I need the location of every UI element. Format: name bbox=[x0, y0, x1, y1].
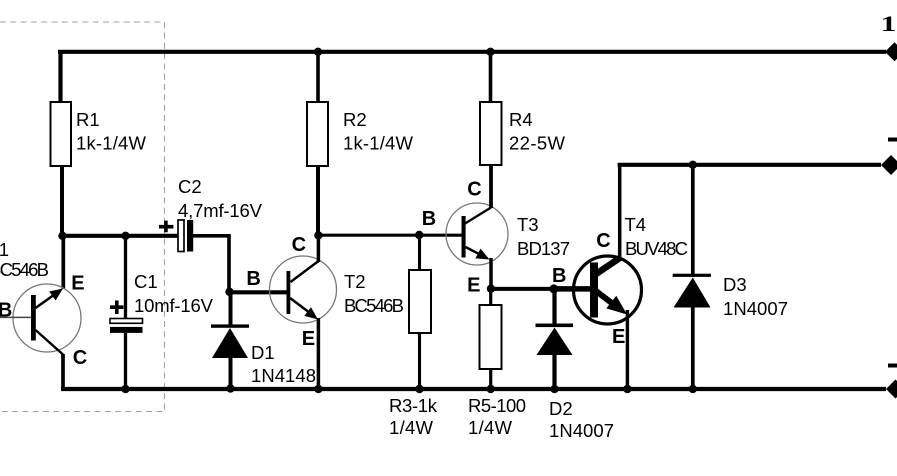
node A junction dot bbox=[58, 232, 66, 240]
svg-text:T4: T4 bbox=[625, 214, 647, 235]
svg-text:C: C bbox=[292, 234, 306, 256]
transistor T4 bbox=[552, 214, 688, 348]
junction dot T2 emitter on rail bbox=[314, 385, 322, 393]
svg-text:B: B bbox=[422, 208, 436, 230]
diode D1 bbox=[211, 291, 316, 393]
wire: R1 bottom to node A bbox=[60, 166, 64, 236]
svg-text:T2: T2 bbox=[344, 271, 366, 292]
resistor R2 bbox=[307, 48, 414, 236]
svg-text:C: C bbox=[467, 179, 481, 201]
svg-text:BC546B: BC546B bbox=[0, 259, 49, 280]
svg-text:1: 1 bbox=[881, 12, 897, 36]
wire: T2 emitter to bottom rail bbox=[317, 318, 321, 389]
selection box (dashed marquee) bbox=[0, 22, 165, 412]
wire: node E3 to node B4 bbox=[491, 287, 553, 291]
terminal minus (middle right) bbox=[881, 138, 897, 176]
wire: node B4 to T4 base bbox=[553, 286, 591, 292]
node B4 junction dot (D2 / T4 base) bbox=[549, 284, 558, 293]
wire: middle rail bbox=[618, 163, 881, 167]
diode D3 bbox=[673, 161, 788, 394]
svg-text:C1: C1 bbox=[134, 271, 158, 292]
svg-text:B: B bbox=[0, 300, 12, 322]
wire: T3 emitter down to node E3 bbox=[489, 258, 493, 289]
svg-text:B: B bbox=[552, 265, 566, 287]
svg-text:E: E bbox=[302, 328, 315, 350]
svg-text:C2: C2 bbox=[178, 176, 202, 197]
wire: T1 collector to bottom rail bbox=[61, 354, 65, 389]
svg-text:R5-100: R5-100 bbox=[468, 395, 526, 416]
terminal 1 (top right, +) bbox=[881, 12, 897, 62]
svg-text:D1: D1 bbox=[251, 342, 275, 363]
node E3 junction dot bbox=[487, 285, 495, 293]
svg-text:R2: R2 bbox=[343, 109, 367, 130]
svg-text:4,7mf-16V: 4,7mf-16V bbox=[178, 200, 263, 221]
wire: node to T2 base bbox=[229, 290, 287, 294]
wire: top rail (+) bbox=[58, 50, 886, 54]
wire: bottom rail (-) bbox=[61, 387, 886, 391]
svg-text:R4: R4 bbox=[509, 109, 533, 130]
svg-text:E: E bbox=[467, 275, 480, 297]
svg-text:1N4007: 1N4007 bbox=[549, 420, 614, 441]
svg-text:T3: T3 bbox=[517, 214, 539, 235]
wire: C2 right to T2 base node bbox=[193, 236, 229, 292]
wire: node A to C2 left bbox=[60, 234, 178, 238]
transistor T1 bbox=[0, 239, 87, 369]
svg-text:BUV48C: BUV48C bbox=[625, 238, 688, 259]
svg-text:1k-1/4W: 1k-1/4W bbox=[76, 133, 147, 154]
junction dot T4 emitter on rail bbox=[623, 385, 631, 393]
svg-text:R3-1k: R3-1k bbox=[389, 395, 438, 416]
svg-text:C: C bbox=[73, 347, 87, 369]
wire: B-line node C to T3 base bbox=[318, 234, 462, 237]
diode D2 bbox=[536, 289, 615, 441]
node B junction dot (T2 base / D1) bbox=[225, 288, 233, 296]
node C junction dot (R2/T2/B-line) bbox=[314, 231, 322, 239]
svg-text:R1: R1 bbox=[76, 109, 100, 130]
svg-text:C: C bbox=[596, 230, 610, 252]
svg-text:D3: D3 bbox=[723, 274, 747, 295]
wire: T3 collector up to R4 bbox=[489, 166, 493, 208]
resistor R4 bbox=[480, 48, 566, 165]
svg-text:1/4W: 1/4W bbox=[389, 417, 434, 438]
capacitor C2 bbox=[159, 176, 263, 252]
transistor T2 bbox=[246, 234, 404, 350]
svg-text:T1: T1 bbox=[0, 239, 9, 260]
wire: T1 emitter up to node A bbox=[61, 236, 65, 289]
resistor R3 bbox=[389, 231, 438, 438]
wire: T4 collector up to middle rail bbox=[618, 165, 622, 259]
resistor R1 bbox=[51, 102, 147, 166]
svg-text:1/4W: 1/4W bbox=[468, 417, 513, 438]
resistor R5 bbox=[468, 289, 526, 438]
svg-text:BD137: BD137 bbox=[517, 238, 570, 259]
transistor T3 bbox=[422, 179, 570, 297]
svg-text:1N4007: 1N4007 bbox=[723, 298, 788, 319]
svg-text:1N4148: 1N4148 bbox=[251, 365, 316, 386]
wire: left vertical R1 top bbox=[58, 50, 62, 103]
terminal minus (bottom right) bbox=[886, 364, 897, 399]
svg-text:1k-1/4W: 1k-1/4W bbox=[343, 133, 414, 154]
svg-text:E: E bbox=[612, 326, 625, 348]
svg-text:10mf-16V: 10mf-16V bbox=[134, 295, 214, 316]
svg-text:22-5W: 22-5W bbox=[509, 133, 566, 154]
wire: T4 emitter to bottom rail bbox=[626, 310, 629, 389]
capacitor C1 bbox=[110, 232, 214, 394]
svg-text:D2: D2 bbox=[549, 398, 573, 419]
svg-text:BC546B: BC546B bbox=[344, 295, 404, 316]
svg-text:B: B bbox=[246, 268, 260, 290]
wire: T2 collector up to node C bbox=[317, 235, 321, 262]
svg-text:E: E bbox=[71, 273, 84, 295]
